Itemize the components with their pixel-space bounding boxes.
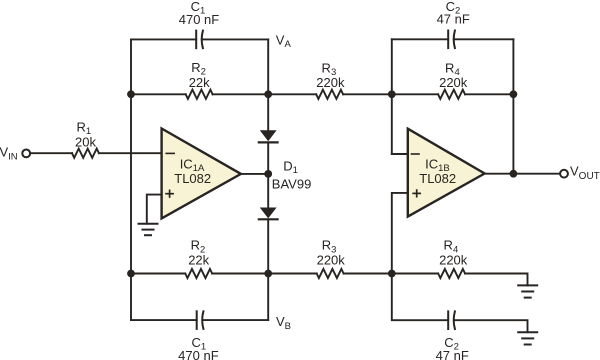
- ground (bottom R4): [518, 285, 537, 297]
- node label VB: [276, 314, 291, 332]
- value 47 nF (bottom): [436, 348, 469, 360]
- resistor R4 (bottom): [438, 269, 465, 278]
- value 220k (bottom R4): [439, 253, 468, 268]
- wire: VIN input row: [31, 152, 73, 154]
- label IC1B: [425, 157, 450, 175]
- resistor R4 (top): [438, 90, 465, 99]
- wire: bottom C1 feedback wire: [131, 319, 268, 321]
- label D1: [283, 159, 298, 177]
- label C1 (bottom): [191, 335, 206, 353]
- value 470 nF (top): [179, 12, 220, 27]
- resistor R2 (top): [186, 90, 213, 99]
- value 47 nF (top): [437, 12, 470, 27]
- wire: top row junction to R4: [392, 93, 438, 95]
- label VIN: [0, 145, 18, 163]
- svg-text:220k: 220k: [317, 253, 346, 268]
- label VOUT: [570, 164, 600, 183]
- wire: left vertical rail of IC1A feedback: [130, 39, 132, 320]
- svg-text:TL082: TL082: [419, 171, 456, 186]
- terminal VIN: [22, 150, 30, 158]
- node dot: top center junction: [388, 90, 396, 98]
- svg-text:VOUT: VOUT: [570, 164, 600, 183]
- resistor R2 (bottom): [185, 269, 212, 278]
- resistor R3 (bottom): [317, 269, 344, 278]
- label TL082 (IC1B): [419, 171, 456, 186]
- value 220k (top R4): [439, 75, 468, 90]
- op-amp U1A minus pin mark: [166, 152, 174, 154]
- svg-text:BAV99: BAV99: [272, 176, 312, 191]
- wire: top row VA node to R3: [268, 93, 316, 95]
- terminal VOUT: [560, 170, 568, 178]
- wire: top row R3 to junction: [343, 93, 392, 95]
- value 220k (top R3): [316, 75, 345, 90]
- op-amp U1A plus pin mark: [166, 190, 173, 197]
- wire: top R2 right lead: [213, 93, 269, 95]
- svg-text:470 nF: 470 nF: [178, 348, 219, 360]
- capacitor C1 (bottom): [197, 311, 204, 329]
- svg-text:22k: 22k: [189, 75, 210, 90]
- label R2 (top): [191, 60, 206, 78]
- value 470 nF (bottom): [178, 348, 219, 360]
- label TL082 (IC1A): [174, 171, 211, 186]
- node dot: IC1B output node: [510, 170, 518, 178]
- value BAV99: [272, 176, 312, 191]
- node dot: top right rail junction: [510, 90, 518, 98]
- node dot: VA node: [264, 90, 272, 98]
- label C2 (bottom): [444, 335, 459, 353]
- label R3 (bottom): [322, 238, 337, 256]
- wire: bottom R2 row left lead: [131, 273, 185, 275]
- label IC1A: [180, 157, 205, 175]
- resistor R1: [72, 149, 99, 158]
- capacitor C2 (bottom): [448, 311, 455, 329]
- svg-text:220k: 220k: [439, 253, 468, 268]
- wire: bottom C2 to ground: [455, 320, 528, 332]
- wire: vertical rail junction to IC1B inverting input: [391, 39, 393, 154]
- diode D1b (lower): [259, 208, 278, 220]
- svg-text:TL082: TL082: [174, 171, 211, 186]
- wire: right rail C2/R4 to output node: [512, 39, 514, 173]
- node dot: top left R2/rail junction: [127, 90, 135, 98]
- wire: top C1 feedback wire: [131, 38, 268, 40]
- wire: bottom junction down to C2: [392, 274, 448, 321]
- wire: top R2 row left lead: [131, 93, 186, 95]
- label R4 (top): [445, 61, 460, 79]
- svg-text:47 nF: 47 nF: [437, 12, 470, 27]
- op-amp U1A body: [162, 129, 241, 219]
- op-amp U1B body: [408, 129, 485, 217]
- svg-text:VA: VA: [276, 33, 292, 51]
- wire: top C2 feedback wire: [392, 38, 514, 40]
- capacitor C2 (top): [448, 31, 455, 49]
- wire: IC1A output to diode node: [241, 173, 268, 175]
- wire: bottom row R3 to junction: [344, 273, 392, 275]
- wire: top row R4 to right rail: [465, 93, 513, 95]
- node dot: VB node: [264, 270, 272, 278]
- label R1: [76, 120, 91, 138]
- wire: bottom row VB node to R3: [268, 273, 317, 275]
- svg-text:20k: 20k: [75, 134, 96, 149]
- node label VA: [276, 33, 292, 51]
- capacitor C1 (top): [196, 31, 203, 49]
- wire: IC1B inverting input stub: [392, 153, 408, 155]
- svg-text:470 nF: 470 nF: [179, 12, 220, 27]
- svg-text:D1: D1: [283, 159, 298, 177]
- node dot: bottom center junction: [388, 270, 396, 278]
- value 20k: [75, 134, 96, 149]
- wire: IC1B noninverting branch to bottom junction: [392, 193, 408, 274]
- svg-text:220k: 220k: [316, 75, 345, 90]
- diode D1a (upper): [259, 130, 278, 142]
- label C2 (top): [446, 0, 461, 17]
- wire: bottom R4 to ground: [465, 274, 527, 286]
- svg-text:220k: 220k: [439, 75, 468, 90]
- svg-text:47 nF: 47 nF: [436, 348, 469, 360]
- label C1 (top): [191, 0, 206, 17]
- wire: diode column VA to VB: [267, 39, 269, 320]
- wire: IC1A noninverting input stub: [147, 195, 162, 224]
- node dot: IC1A output / diode midpoint: [264, 170, 272, 178]
- op-amp U1B minus pin mark: [412, 153, 420, 155]
- op-amp U1B plus pin mark: [413, 190, 420, 197]
- label R2 (bottom): [191, 238, 206, 256]
- value 22k (bottom R2): [188, 253, 209, 268]
- node dot: bottom left R2/rail junction: [127, 270, 135, 278]
- resistor R3 (top): [316, 90, 343, 99]
- svg-text:VB: VB: [276, 314, 291, 332]
- svg-text:22k: 22k: [188, 253, 209, 268]
- label R4 (bottom): [444, 238, 459, 256]
- value 220k (bottom R3): [317, 253, 346, 268]
- wire: bottom R2 right lead: [212, 273, 268, 275]
- wire: bottom junction to R4: [392, 273, 438, 275]
- ground (IC1A noninverting input): [139, 224, 158, 236]
- svg-text:VIN: VIN: [0, 145, 18, 163]
- label R3 (top): [322, 61, 337, 79]
- wire: R1 to IC1A inverting input: [99, 152, 162, 154]
- wire: IC1B output to VOUT terminal: [485, 173, 560, 175]
- value 22k (top R2): [189, 75, 210, 90]
- ground (bottom C2): [518, 332, 537, 344]
